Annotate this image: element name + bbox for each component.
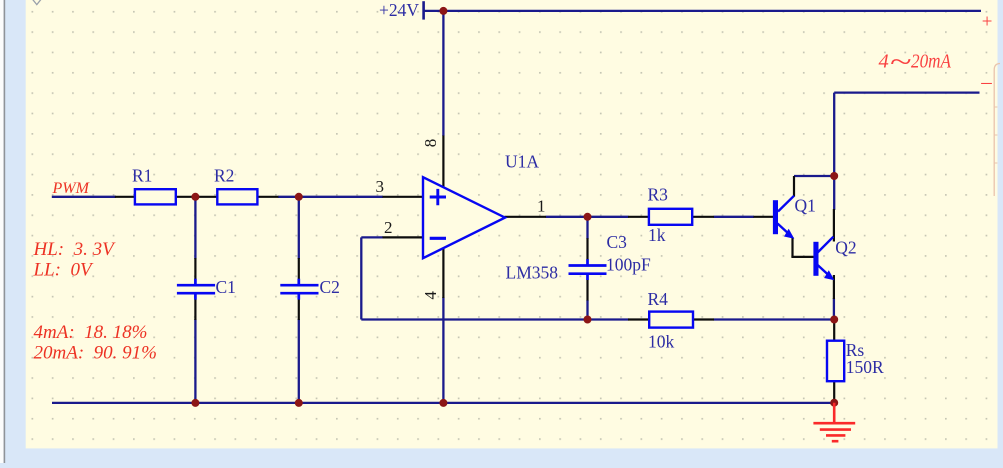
- pin: R3 right: [692, 216, 714, 218]
- node: C1 bottom rail junction: [191, 399, 199, 407]
- svg-text:U1A: U1A: [505, 152, 539, 172]
- sheet template border ticks: [994, 107, 997, 163]
- wire: pin 4 down to bottom rail: [442, 297, 444, 403]
- pin: Q1 base: [754, 216, 775, 218]
- wire: pin 2 stub: [361, 236, 383, 238]
- svg-text:4mA: 18. 18%: 4mA: 18. 18%: [34, 322, 148, 343]
- pin: op-amp pin 2: [383, 236, 424, 238]
- wire: V+ vertical drop to pin 8: [442, 11, 444, 136]
- node: C2 bottom rail junction: [295, 399, 303, 407]
- svg-text:PWM: PWM: [52, 180, 91, 197]
- wire: minus output rail: [834, 91, 979, 93]
- pin: R4 right: [693, 318, 714, 320]
- Q1 collector stroke: [778, 196, 794, 212]
- svg-text:C2: C2: [320, 277, 340, 297]
- pin: op-amp pin 4: [442, 248, 444, 299]
- node: +24V rail junction: [439, 7, 447, 15]
- svg-text:C3: C3: [607, 232, 628, 252]
- pin: Q1 collector riser: [793, 176, 795, 197]
- wire: R3 to Q1 base: [714, 216, 754, 218]
- svg-text:100pF: 100pF: [606, 255, 651, 275]
- Q1 emitter arrowhead: [784, 229, 794, 239]
- wire: bottom ground rail: [52, 402, 834, 404]
- wire: node2 down to C2: [298, 197, 300, 259]
- svg-text:20mA: 20mA: [911, 51, 951, 73]
- svg-text:R2: R2: [214, 166, 234, 186]
- resistor R2: [217, 189, 257, 204]
- pin: Rs top: [833, 320, 835, 341]
- Q2 emitter arrowhead: [824, 270, 834, 280]
- resistor R4: [649, 312, 693, 328]
- svg-text:~: ~: [890, 45, 912, 77]
- node: R1/R2/C1 junction: [191, 193, 199, 201]
- pin: op-amp output pin 1: [505, 216, 547, 218]
- wire: R4 to right rail: [714, 318, 835, 320]
- pin: Q1 emitter to Q2 base: [791, 256, 814, 258]
- wire: output node down to C3: [586, 217, 588, 239]
- svg-text:Q1: Q1: [795, 196, 816, 216]
- Q1 emitter stroke: [778, 224, 792, 237]
- annotation 4~20mA: [879, 45, 952, 77]
- wire: Q1 collector to right rail node: [794, 175, 834, 177]
- left white gutter: [0, 0, 4, 463]
- svg-text:+: +: [981, 12, 994, 33]
- wire: right rail vertical: [833, 93, 835, 210]
- sheet template border sliver (right edge): [994, 64, 1000, 197]
- pin: op-amp pin 8: [442, 136, 444, 188]
- Q1 base bar: [773, 200, 778, 234]
- node: Q1 collector rail junction: [830, 172, 838, 180]
- svg-text:10k: 10k: [648, 332, 675, 352]
- ground: [813, 403, 855, 442]
- svg-text:C1: C1: [216, 277, 236, 297]
- node: pin4 bottom rail junction: [439, 399, 447, 407]
- pin: Q2 emitter drop: [833, 275, 835, 299]
- capacitor C2: [280, 279, 318, 300]
- transistor Q2: [813, 237, 834, 281]
- svg-text:LM358: LM358: [506, 263, 559, 283]
- pin: C3 top: [586, 238, 588, 260]
- pin: C1 top: [194, 258, 196, 279]
- svg-text:HL: 3. 3V: HL: 3. 3V: [33, 239, 117, 260]
- Q2 base bar: [813, 242, 818, 276]
- svg-text:1k: 1k: [648, 225, 666, 245]
- svg-text:4: 4: [879, 51, 889, 73]
- svg-text:LL: 0V: LL: 0V: [33, 260, 94, 281]
- node: R4/Rs junction: [830, 316, 838, 324]
- pin: C1 bottom: [194, 299, 196, 320]
- pin: Rs bottom: [833, 381, 835, 403]
- wire: Q2 emitter to Rs node: [833, 298, 835, 320]
- resistor R3: [649, 209, 692, 225]
- svg-text:150R: 150R: [846, 357, 884, 377]
- node: C3/R4 feedback junction: [584, 316, 592, 324]
- node: Rs/ground junction: [830, 399, 838, 407]
- pin: C2 top: [298, 258, 300, 279]
- wire: C2 down to bottom rail: [298, 319, 300, 403]
- Q2 emitter stroke: [818, 265, 832, 278]
- svg-text:2: 2: [384, 218, 393, 237]
- resistor R1: [135, 189, 176, 204]
- pin: R1 left: [115, 196, 135, 198]
- left gutter divider line: [4, 0, 6, 463]
- node: R2/C2 junction: [295, 193, 303, 201]
- svg-text:–: –: [980, 70, 992, 94]
- pin: C2 bottom: [298, 299, 300, 320]
- svg-text:3: 3: [376, 177, 385, 196]
- svg-text:R4: R4: [648, 289, 669, 309]
- pin: R1 right: [176, 196, 196, 198]
- wire: +24V top rail: [424, 10, 982, 12]
- +24V power port bar: [422, 1, 425, 19]
- svg-text:+24V: +24V: [379, 0, 419, 20]
- pin: C3 bottom: [586, 280, 588, 301]
- origin diamond marker: [32, 0, 41, 5]
- pin: Q2 collector riser: [833, 209, 835, 242]
- op-amp plus input marker: [430, 189, 446, 205]
- wire: PWM input: [52, 196, 116, 198]
- node: output/C3 junction: [584, 213, 592, 221]
- wire: op-amp output to R3: [546, 216, 629, 218]
- svg-text:20mA: 90. 91%: 20mA: 90. 91%: [34, 343, 157, 364]
- pin: R4 left: [628, 318, 649, 320]
- wire: feedback horizontal to R4: [361, 318, 628, 320]
- transistor Q1: [773, 196, 794, 239]
- pin: R3 left: [628, 216, 649, 218]
- pin: op-amp pin 3: [383, 196, 424, 198]
- wire: node1 down to C1: [194, 197, 196, 259]
- wire: feedback vertical: [360, 237, 362, 319]
- svg-text:Q2: Q2: [835, 238, 856, 258]
- capacitor C3: [569, 259, 607, 280]
- capacitor C1: [177, 279, 215, 300]
- pin: Q1 emitter drop: [791, 237, 793, 257]
- op-amp U1A triangle: [423, 177, 505, 258]
- svg-text:1: 1: [537, 197, 546, 216]
- svg-text:R1: R1: [132, 166, 152, 186]
- pin: R2 left: [195, 196, 217, 198]
- svg-text:4: 4: [421, 291, 440, 300]
- svg-text:8: 8: [421, 139, 440, 148]
- op-amp minus input marker: [430, 237, 446, 240]
- pin: R2 right: [257, 196, 278, 198]
- resistor Rs: [827, 341, 844, 382]
- wire: C1 down to bottom rail: [194, 319, 196, 403]
- svg-text:R3: R3: [648, 185, 669, 205]
- wire: R2 to pin 3: [278, 196, 383, 198]
- wire: C3 bottom segment to feedback node: [586, 300, 588, 320]
- Q2 collector stroke: [818, 237, 834, 253]
